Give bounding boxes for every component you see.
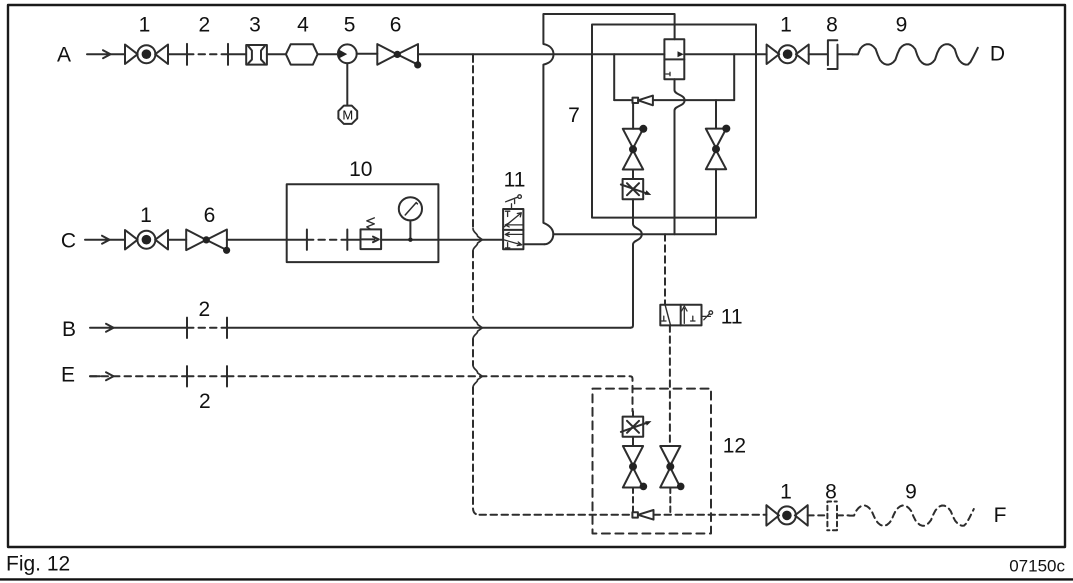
wire	[381, 239, 503, 241]
dashed pilot valve to block 12	[669, 325, 671, 446]
dashed drop to check valve	[632, 488, 634, 513]
regulator valve body	[664, 39, 684, 79]
coupling 2 (B line)	[187, 318, 227, 338]
svg-text:B: B	[62, 318, 76, 341]
wire	[838, 53, 853, 55]
dashed drop to line F	[669, 488, 671, 515]
valve 1 (F line)	[766, 505, 807, 525]
svg-text:2: 2	[199, 390, 211, 413]
metering valve left (block 12)	[623, 446, 643, 488]
variable restrictor (block 12)	[623, 417, 644, 437]
svg-text:1: 1	[139, 14, 151, 37]
valve 11 bottom cell: diagonal	[504, 240, 521, 246]
svg-text:1: 1	[140, 204, 152, 227]
dashed pilot from C-ext down	[664, 234, 666, 304]
svg-text:2: 2	[198, 298, 210, 321]
valve 11 (C line) body	[503, 209, 523, 249]
svg-text:11: 11	[721, 306, 743, 329]
wire A exits regulator	[684, 53, 756, 55]
pressure regulator (unit 10)	[361, 229, 382, 249]
branch B drop with hop over C-ext, corner to line B	[631, 199, 642, 328]
arrow inlet B	[90, 324, 114, 332]
wire	[809, 53, 828, 55]
svg-text:10: 10	[349, 158, 372, 181]
wire	[318, 53, 338, 55]
wire B to corner	[227, 327, 631, 329]
arrow inlet A	[87, 50, 111, 58]
wire	[168, 239, 186, 241]
valve 11 (bottom) right cell stub	[691, 316, 695, 321]
svg-text:M: M	[342, 108, 353, 123]
wire restrictor to valve	[632, 437, 634, 446]
valve 1 (A line)	[125, 45, 168, 65]
svg-text:6: 6	[390, 14, 402, 37]
wire	[110, 239, 126, 241]
arrow inlet E	[90, 372, 114, 380]
valve 11 top cell: horizontal arrow	[505, 223, 523, 227]
spring (unit 10)	[367, 218, 375, 230]
valve 11 out hook to C-ext junction	[523, 243, 544, 245]
crossing jog at line B	[473, 317, 482, 339]
wire	[267, 53, 286, 55]
pilot path from regulator top to C branch with hop over line A	[543, 14, 674, 244]
coupling 2 (A line) break symbol	[187, 44, 228, 65]
wire	[168, 53, 187, 55]
branch valve left (block 7) stem	[632, 103, 634, 129]
crossing jog at line E	[473, 365, 482, 387]
metering valve right (block 12)	[660, 446, 680, 488]
dashed wire	[837, 514, 849, 516]
dashed wire E	[90, 375, 187, 377]
coupling 8 (F line) dashed	[827, 502, 837, 531]
check valve (block 7)	[633, 98, 639, 103]
wire	[228, 53, 246, 55]
block 12 dashed enclosure	[593, 389, 712, 534]
wire	[114, 327, 188, 329]
valve 11 bottom cell: blocked stub	[505, 243, 509, 248]
pilot drop right	[733, 54, 735, 100]
gauge (unit 10)	[399, 197, 422, 220]
svg-text:4: 4	[297, 14, 309, 37]
filter 3	[246, 45, 267, 65]
branch valve right (block 7)	[706, 129, 726, 170]
branch valve right (block 7) stem	[715, 100, 717, 129]
valve 6 (C line)	[186, 230, 227, 251]
valve 11 top cell: diagonal arrow	[504, 213, 521, 227]
valve 11 bottom cell: horizontal arrow (C out)	[505, 232, 523, 236]
valve 1 (C line)	[125, 230, 168, 250]
dashed wire F inside block	[654, 514, 767, 516]
svg-text:2: 2	[198, 14, 210, 37]
valve 6 (A line)	[377, 44, 418, 65]
wire pump to motor	[346, 63, 348, 105]
wire	[111, 53, 126, 55]
svg-text:E: E	[61, 364, 75, 387]
svg-text:1: 1	[780, 481, 792, 504]
svg-text:6: 6	[204, 204, 216, 227]
valve 11 (bottom) left cell stub	[662, 316, 666, 321]
enclosure rectangle 7	[592, 25, 756, 218]
wire valve to restrictor	[632, 170, 634, 180]
valve 11 (bottom) left cell diagonal	[665, 305, 670, 325]
valve 1 (D line)	[767, 45, 809, 65]
crossing jog at line C	[473, 229, 482, 251]
svg-text:A: A	[57, 44, 71, 67]
dashed riser from line A top stub	[472, 54, 474, 62]
valve 11 lever actuator	[506, 197, 518, 209]
wire A to regulator block	[418, 53, 664, 55]
variable restrictor (block 7)	[623, 179, 644, 199]
wire into unit 10	[227, 239, 307, 241]
page separator line	[0, 578, 1073, 580]
valve 11 top cell: blocked stub	[505, 211, 509, 216]
svg-text:12: 12	[723, 435, 746, 458]
valve 11 (bottom) body	[660, 305, 701, 326]
pump 5	[338, 44, 357, 63]
svg-text:8: 8	[825, 481, 837, 504]
wire	[756, 53, 767, 55]
hose 9 (D line)	[853, 44, 978, 64]
damper 4	[286, 44, 318, 64]
dashed wire to block 12	[480, 514, 633, 516]
svg-text:3: 3	[249, 14, 261, 37]
pilot line L2	[614, 99, 734, 101]
svg-text:1: 1	[780, 14, 792, 37]
branch right drop to C-ext	[715, 169, 717, 234]
variable restrictor (block 12) stub	[632, 411, 634, 416]
C-ext header line	[553, 233, 716, 235]
regulator bottom drop with hop over L2	[675, 79, 685, 234]
svg-text:9: 9	[905, 481, 917, 504]
svg-text:Fig. 12: Fig. 12	[6, 553, 70, 576]
unit 10 enclosure	[287, 184, 439, 262]
branch valve left (block 7)	[623, 129, 643, 170]
valve 11 (bottom) lever actuator	[702, 314, 711, 320]
check valve (block 12)	[632, 512, 638, 517]
dashed wire	[808, 514, 827, 516]
hose 9 (F line) dashed	[849, 506, 974, 526]
arrow inlet C	[85, 236, 110, 244]
svg-text:9: 9	[896, 14, 908, 37]
coupling 2 (E line)	[187, 366, 227, 386]
svg-text:F: F	[994, 504, 1007, 527]
dashed riser	[472, 251, 474, 317]
pilot drop left	[613, 54, 615, 100]
coupling 8 (D line)	[828, 40, 838, 69]
svg-text:07150c: 07150c	[1009, 557, 1065, 576]
svg-text:8: 8	[826, 14, 838, 37]
dashed riser	[472, 339, 474, 365]
svg-text:D: D	[990, 43, 1005, 66]
coupling break inside 10	[307, 230, 347, 250]
svg-text:7: 7	[568, 104, 580, 127]
svg-text:11: 11	[504, 169, 526, 192]
dashed riser to bottom corner	[473, 388, 480, 515]
valve 11 (bottom) right cell vertical arrow	[682, 306, 687, 323]
dashed wire E to corner, corner down into block 12	[227, 376, 633, 411]
svg-text:5: 5	[344, 14, 356, 37]
svg-text:C: C	[61, 230, 76, 253]
wire	[347, 239, 360, 241]
motor M	[338, 106, 357, 124]
wire	[357, 53, 378, 55]
